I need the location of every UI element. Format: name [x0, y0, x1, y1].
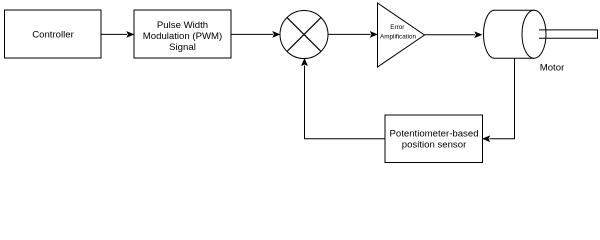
svg-text:Amplification: Amplification: [380, 34, 416, 41]
op-amp U1 Error Amplification triangle: [378, 3, 425, 67]
svg-text:Motor: Motor: [540, 63, 565, 74]
wire position sensor to summing junction (feedback left): [302, 59, 385, 139]
svg-text:position sensor: position sensor: [402, 140, 467, 151]
svg-text:Error: Error: [390, 24, 404, 31]
svg-text:Pulse Width: Pulse Width: [157, 20, 208, 31]
block Pulse Width Modulation (PWM) Signal: [134, 10, 231, 58]
summing junction (circle with X): [280, 11, 328, 59]
svg-text:Modulation (PWM): Modulation (PWM): [143, 31, 222, 42]
svg-text:Potentiometer-based: Potentiometer-based: [389, 129, 478, 140]
wire PWM block to summing junction: [231, 32, 280, 37]
svg-text:Controller: Controller: [32, 29, 74, 40]
block Potentiometer-based position sensor: [385, 115, 483, 163]
block Controller: [5, 10, 102, 58]
wire error amplifier to motor: [425, 32, 482, 37]
wire Controller to PWM block: [101, 32, 134, 37]
motor M1 (cylinder body with end cap and shaft): [484, 10, 598, 58]
wire summing junction to error amplifier: [328, 32, 377, 37]
wire motor to position sensor (feedback right): [483, 58, 515, 141]
svg-text:Signal: Signal: [169, 42, 196, 53]
